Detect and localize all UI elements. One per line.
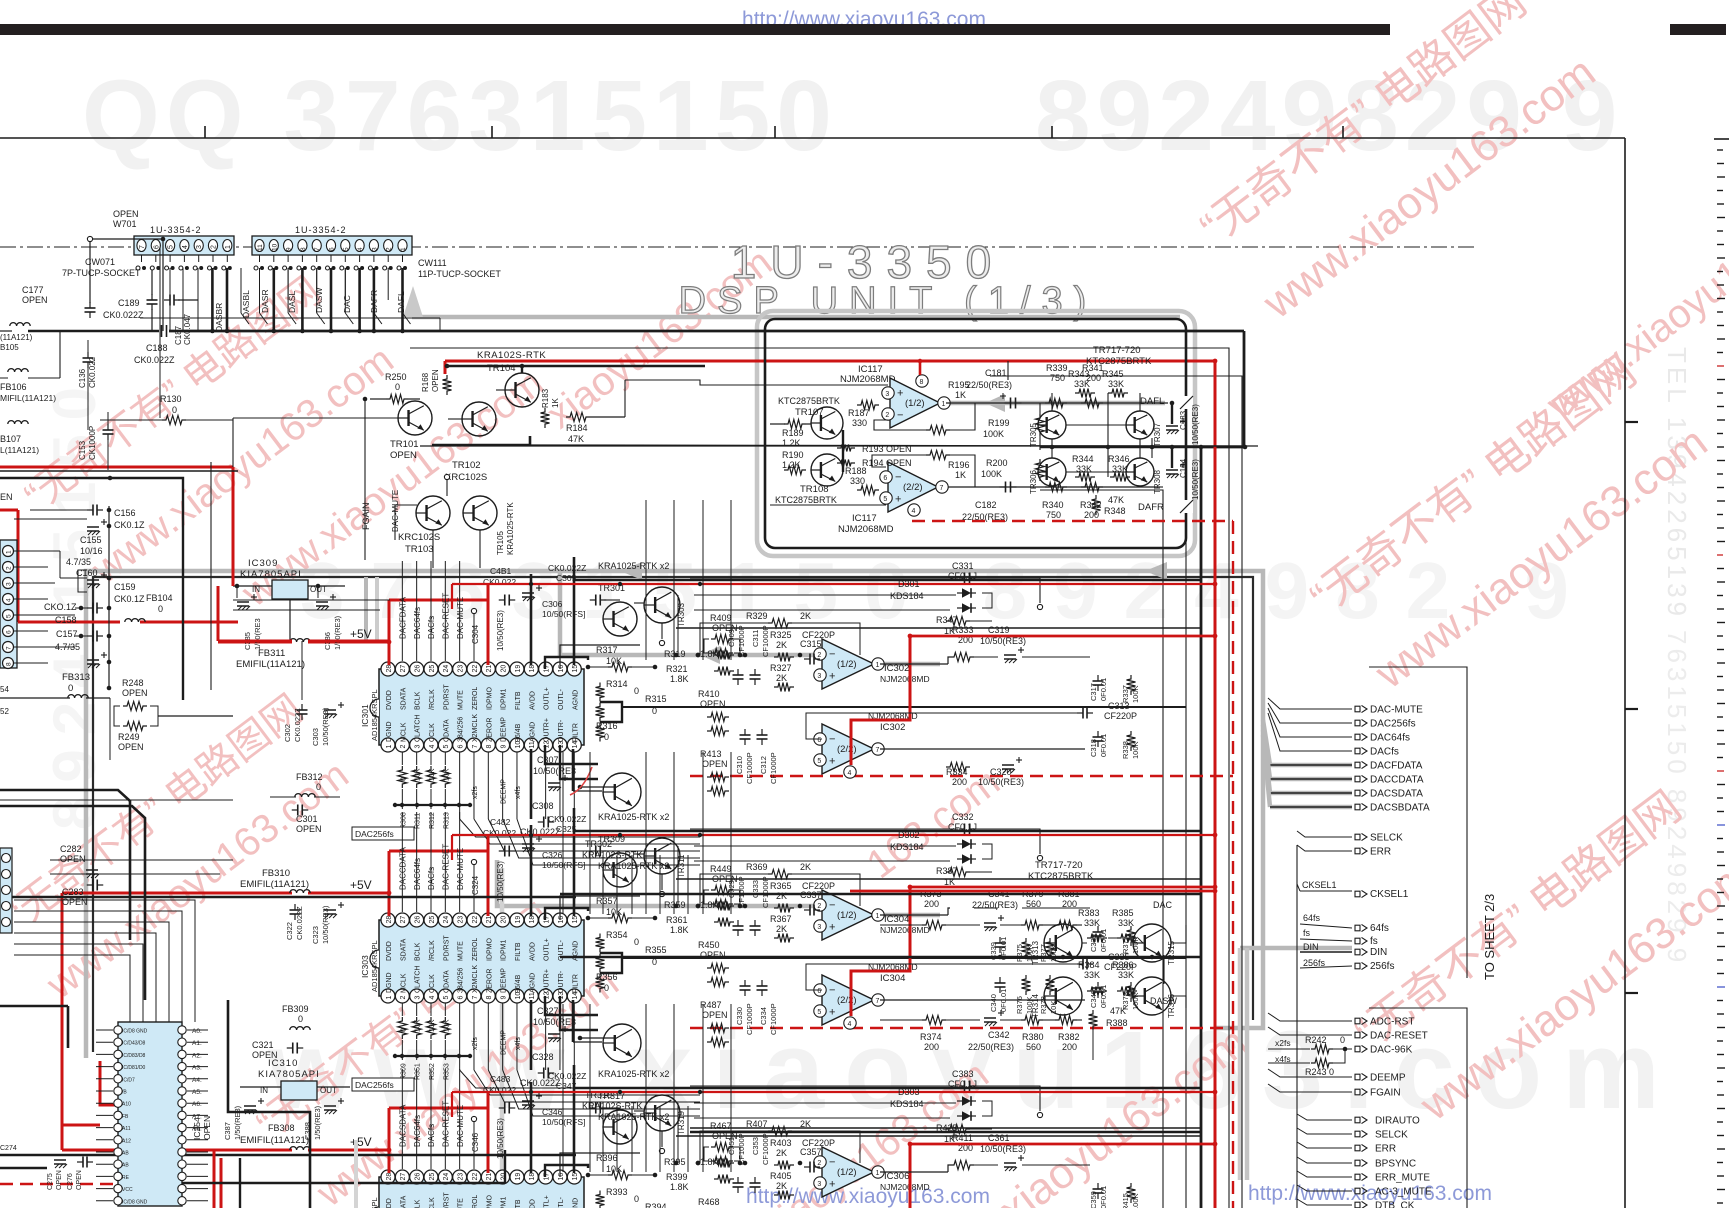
- svg-text:OPEN: OPEN: [296, 824, 322, 834]
- svg-text:7: 7: [314, 247, 321, 251]
- svg-text:FILTR: FILTR: [572, 974, 579, 993]
- svg-text:6: 6: [457, 996, 464, 1000]
- svg-text:CK0.022Z: CK0.022Z: [293, 708, 302, 742]
- svg-text:R344: R344: [1072, 454, 1094, 464]
- svg-text:0: 0: [634, 1194, 639, 1204]
- svg-text:C302: C302: [283, 724, 292, 742]
- red supply pin8: [919, 361, 922, 375]
- svg-text:R354: R354: [606, 930, 628, 940]
- net DTB_CK: [1297, 1199, 1352, 1205]
- svg-text:25: 25: [429, 916, 436, 924]
- feedback loop small IC305: [700, 1131, 768, 1163]
- red wire left s2: [61, 893, 64, 1150]
- svg-text:DEEMP: DEEMP: [501, 717, 508, 742]
- svg-text:33K: 33K: [1118, 970, 1134, 980]
- svg-text:IC309: IC309: [248, 558, 278, 569]
- frame top border: [0, 137, 1625, 139]
- bracket box group1: [1369, 667, 1467, 978]
- svg-text:26: 26: [414, 916, 421, 924]
- gray bus arrow at connector: [403, 286, 423, 317]
- svg-text:DACFDATA: DACFDATA: [1370, 761, 1423, 772]
- svg-text:7: 7: [876, 998, 880, 1005]
- svg-text:16: 16: [558, 916, 565, 924]
- svg-text:CLATCH: CLATCH: [415, 966, 422, 993]
- svg-text:IC/D8 GND: IC/D8 GND: [122, 1199, 148, 1205]
- svg-text:33K: 33K: [1084, 918, 1100, 928]
- svg-text:256fs: 256fs: [1303, 958, 1326, 968]
- svg-text:DAC64fs: DAC64fs: [1370, 733, 1410, 744]
- net DAC-96K: [1355, 1046, 1360, 1052]
- net DACfs: [1268, 713, 1352, 751]
- svg-text:5: 5: [343, 247, 350, 251]
- svg-text:7P-TUCP-SOCKET: 7P-TUCP-SOCKET: [62, 268, 141, 278]
- svg-text:R352: R352: [429, 1063, 436, 1080]
- svg-text:1K: 1K: [955, 390, 966, 400]
- feedback wires IC302: [1060, 656, 1090, 658]
- svg-text:CK0.022Z: CK0.022Z: [134, 355, 175, 365]
- svg-text:DAC64fs: DAC64fs: [413, 1115, 422, 1147]
- svg-text:−: −: [829, 1157, 835, 1169]
- svg-text:3: 3: [371, 247, 378, 251]
- svg-text:20: 20: [500, 916, 507, 924]
- svg-text:−: −: [829, 734, 835, 746]
- right edge tick marks: [1717, 149, 1723, 151]
- svg-text:D303: D303: [898, 1087, 920, 1097]
- svg-text:CCLK: CCLK: [429, 723, 436, 742]
- svg-text:DEEMP: DEEMP: [501, 779, 508, 804]
- capacitor C183: [1166, 425, 1178, 427]
- svg-text:4: 4: [429, 745, 436, 749]
- svg-text:15: 15: [572, 1173, 579, 1181]
- svg-text:1: 1: [876, 662, 880, 669]
- svg-text:C275: C275: [47, 1173, 54, 1190]
- svg-text:ZEROL: ZEROL: [472, 687, 479, 710]
- svg-text:KTC2875BRTK: KTC2875BRTK: [778, 396, 840, 406]
- svg-text:33K: 33K: [1074, 379, 1090, 389]
- svg-text:2: 2: [400, 996, 407, 1000]
- svg-text:R376: R376: [1015, 996, 1024, 1014]
- svg-text:KTC2875BRTK: KTC2875BRTK: [1028, 871, 1094, 882]
- svg-text:9: 9: [500, 745, 507, 749]
- svg-text:CK0.022Z: CK0.022Z: [103, 310, 144, 320]
- svg-text:AGND: AGND: [529, 722, 536, 742]
- svg-text:DIN: DIN: [1370, 947, 1387, 958]
- red supply wires IC305: [62, 1149, 292, 1152]
- svg-text:FILTB: FILTB: [515, 1199, 522, 1208]
- red wires left s1: [217, 586, 220, 641]
- svg-text:MUTE: MUTE: [458, 690, 465, 710]
- svg-text:ERR: ERR: [1375, 1144, 1396, 1155]
- svg-text:R327: R327: [770, 663, 792, 673]
- svg-text:750: 750: [1050, 373, 1065, 383]
- svg-text:330: 330: [850, 476, 865, 486]
- svg-text:1.8K: 1.8K: [670, 674, 689, 684]
- svg-text:DACfs: DACfs: [427, 867, 436, 890]
- net DAC256fs: [1268, 703, 1352, 723]
- svg-text:25: 25: [429, 665, 436, 673]
- feedback wires IC306: [1060, 1164, 1090, 1166]
- svg-text:C319: C319: [988, 625, 1010, 635]
- capacitor C156: [87, 509, 93, 511]
- svg-text:OPEN: OPEN: [113, 209, 139, 219]
- svg-text:R367: R367: [770, 914, 792, 924]
- svg-text:NJM2068MD: NJM2068MD: [880, 674, 930, 684]
- svg-text:R315: R315: [645, 694, 667, 704]
- op-amp IC306 1/2: [822, 1147, 874, 1197]
- svg-text:−: −: [897, 410, 903, 422]
- svg-text:DAC-RESET: DAC-RESET: [442, 844, 451, 890]
- svg-text:100K: 100K: [1131, 1193, 1140, 1208]
- svg-text:C325: C325: [556, 824, 577, 834]
- svg-text:R468: R468: [698, 1197, 720, 1207]
- svg-text:R183: R183: [541, 388, 550, 408]
- svg-text:IC304: IC304: [884, 914, 909, 925]
- svg-text:IC310: IC310: [268, 1058, 298, 1069]
- svg-text:10/50(RE3): 10/50(RE3): [1191, 404, 1200, 445]
- net DACCDATA: [1270, 777, 1352, 782]
- svg-text:AGND: AGND: [572, 690, 579, 710]
- svg-text:21: 21: [486, 916, 493, 924]
- svg-text:2K: 2K: [800, 862, 811, 872]
- svg-text:R383: R383: [1078, 908, 1100, 918]
- svg-text:R333: R333: [952, 625, 974, 635]
- IC117 shield box: [765, 319, 1186, 548]
- svg-text:5: 5: [883, 496, 887, 503]
- svg-text:C155: C155: [80, 535, 102, 545]
- svg-text:OUTR+: OUTR+: [544, 718, 551, 742]
- svg-text:(11A121): (11A121): [0, 333, 33, 342]
- wires ch2 stage: [880, 924, 922, 926]
- transistor TR102: [462, 402, 496, 436]
- svg-text:24: 24: [443, 665, 450, 673]
- svg-text:IC/D7: IC/D7: [122, 1077, 135, 1083]
- svg-text:(1/2): (1/2): [837, 659, 857, 670]
- svg-text:26: 26: [414, 1173, 421, 1181]
- svg-text:33K: 33K: [1118, 918, 1134, 928]
- svg-text:7: 7: [940, 485, 944, 492]
- svg-text:B107: B107: [0, 434, 21, 444]
- svg-text:EN: EN: [0, 492, 13, 502]
- svg-text:4: 4: [848, 1021, 852, 1028]
- svg-text:5: 5: [817, 1009, 821, 1016]
- svg-text:2K: 2K: [800, 611, 811, 621]
- transistor TR305: [1038, 411, 1066, 439]
- transistor TR310: [603, 1024, 641, 1062]
- transistor TR308: [1126, 458, 1154, 486]
- wire mid bus ch2: [560, 956, 1201, 959]
- feedback loop small IC303: [700, 874, 768, 906]
- net DACSDATA: [1270, 791, 1352, 796]
- black supply verticals IC303: [530, 825, 533, 916]
- wire out pins IC301: [545, 745, 598, 764]
- svg-text:DAC-MUTE: DAC-MUTE: [1370, 705, 1423, 716]
- svg-text:DAC256fs: DAC256fs: [1370, 719, 1416, 730]
- svg-text:100K: 100K: [981, 469, 1002, 479]
- svg-text:+: +: [829, 671, 835, 683]
- svg-text:FB309: FB309: [282, 1004, 309, 1014]
- svg-text:OPEN: OPEN: [431, 369, 440, 392]
- svg-text:C312: C312: [759, 756, 768, 774]
- svg-text:1: 1: [942, 401, 946, 408]
- svg-text:64fs: 64fs: [1370, 923, 1389, 934]
- svg-text:18: 18: [529, 1173, 536, 1181]
- svg-text:DASW: DASW: [1150, 996, 1178, 1006]
- svg-text:A3.: A3.: [192, 1065, 202, 1072]
- svg-text:3: 3: [6, 582, 13, 586]
- svg-text:52: 52: [0, 707, 9, 716]
- svg-text:C188: C188: [146, 343, 168, 353]
- svg-text:R361: R361: [666, 915, 688, 925]
- svg-text:C308: C308: [532, 801, 554, 811]
- svg-text:R339: R339: [1046, 363, 1068, 373]
- svg-text:fs: fs: [1303, 928, 1311, 938]
- red dashed boundary s3: [690, 1027, 1233, 1029]
- svg-text:C328: C328: [532, 1052, 554, 1062]
- svg-text:1: 1: [6, 550, 13, 554]
- wires left edge area: [0, 799, 233, 801]
- svg-text:25: 25: [429, 1173, 436, 1181]
- below-block resistors IC303: [401, 1003, 403, 1016]
- svg-text:DAC256fs: DAC256fs: [355, 829, 394, 839]
- svg-text:TR108: TR108: [800, 484, 829, 495]
- label DAC256fs box IC303: [352, 1078, 414, 1091]
- svg-text:CK0.022Z: CK0.022Z: [548, 1071, 586, 1081]
- svg-text:FB106: FB106: [0, 382, 27, 392]
- svg-text:1: 1: [876, 1170, 880, 1177]
- thick corner path B: [228, 1000, 310, 1208]
- opamp1 out wire IC306: [880, 1171, 948, 1173]
- svg-text:CF1000P: CF1000P: [761, 625, 770, 657]
- svg-text:5: 5: [6, 614, 13, 618]
- svg-text:DACfs: DACfs: [427, 616, 436, 639]
- svg-text:TR104: TR104: [487, 363, 516, 374]
- svg-text:EMIFIL(11A121): EMIFIL(11A121): [240, 1135, 309, 1146]
- red dashed boundary s1: [912, 520, 1233, 522]
- svg-text:CKSEL1: CKSEL1: [1302, 880, 1337, 890]
- left long feeds: [233, 599, 390, 601]
- capacitor C159: [87, 607, 93, 609]
- svg-text:KRC102S: KRC102S: [398, 532, 440, 543]
- svg-text:FB: FB: [122, 1114, 129, 1120]
- svg-text:R410: R410: [698, 689, 720, 699]
- svg-text:EMIFIL(11A121): EMIFIL(11A121): [240, 879, 309, 890]
- svg-text:+5V: +5V: [350, 1135, 372, 1149]
- svg-text:AVDD: AVDD: [529, 691, 536, 710]
- svg-text:MUTE: MUTE: [458, 941, 465, 961]
- transistor TR303: [644, 587, 680, 623]
- svg-text:IC302: IC302: [884, 663, 909, 674]
- net AC-3_MUTE: [1297, 1185, 1352, 1191]
- wires TR103 TR105: [432, 530, 434, 568]
- svg-text:OPEN: OPEN: [22, 295, 48, 305]
- svg-text:28: 28: [386, 665, 393, 673]
- svg-text:CK0.022: CK0.022: [483, 828, 516, 838]
- capacitor cluster C155-C160: [108, 506, 110, 690]
- svg-text:IDPM1: IDPM1: [501, 940, 508, 962]
- svg-text:10/50(RE3): 10/50(RE3): [321, 707, 330, 746]
- svg-text:A1.: A1.: [192, 1040, 202, 1047]
- svg-text:8: 8: [486, 745, 493, 749]
- thick verticals below IC301: [530, 749, 533, 819]
- svg-text:SELCK: SELCK: [1375, 1130, 1408, 1141]
- svg-text:X2MCLK: X2MCLK: [472, 714, 479, 742]
- svg-text:FILTB: FILTB: [515, 942, 522, 961]
- svg-text:22: 22: [472, 916, 479, 924]
- svg-text:BCLK: BCLK: [415, 942, 422, 961]
- svg-text:FB308: FB308: [268, 1123, 295, 1133]
- left edge connector mid: [0, 540, 17, 668]
- thin rail x1229: [410, 348, 1229, 1208]
- transistor TR319: [644, 1095, 680, 1131]
- gray bus band B2: [86, 571, 1263, 1058]
- svg-text:+: +: [829, 1179, 835, 1191]
- svg-text:22/50(RE3): 22/50(RE3): [968, 1042, 1014, 1052]
- svg-text:IDPMO: IDPMO: [486, 1195, 493, 1208]
- svg-text:CK0.1Z: CK0.1Z: [114, 520, 145, 530]
- svg-text:C310: C310: [735, 756, 744, 774]
- transistor TR311: [644, 838, 680, 874]
- svg-text:D302: D302: [898, 830, 920, 840]
- net ADC-RST: [1268, 1013, 1352, 1021]
- signal labels above IC301: [401, 561, 403, 661]
- svg-text:FGAIN: FGAIN: [361, 502, 371, 530]
- svg-text:1: 1: [400, 247, 407, 251]
- svg-text:R365: R365: [770, 881, 792, 891]
- svg-text:TR102: TR102: [452, 460, 481, 471]
- registration bar top right: [1670, 24, 1726, 35]
- IC IC301 AD1854KRSPL: [379, 669, 584, 745]
- svg-text:C276: C276: [67, 1173, 74, 1190]
- svg-text:22: 22: [472, 1173, 479, 1181]
- net SELCK: [1297, 1128, 1352, 1134]
- svg-text:IC117: IC117: [852, 513, 877, 524]
- transistor TR314: [1044, 977, 1082, 1015]
- red main rail: [445, 361, 1215, 1208]
- svg-text:CKO.1Z: CKO.1Z: [44, 602, 77, 612]
- svg-text:10K: 10K: [415, 1019, 422, 1032]
- svg-text:2K: 2K: [776, 640, 787, 650]
- gray bus band B2 black companion: [93, 577, 1253, 1052]
- svg-text:1K: 1K: [551, 398, 560, 408]
- svg-text:DAC-MUTE: DAC-MUTE: [456, 848, 465, 890]
- svg-text:R405: R405: [770, 1171, 792, 1181]
- svg-text:(1/2): (1/2): [837, 910, 857, 921]
- svg-text:IC/D81/D0: IC/D81/D0: [122, 1065, 146, 1071]
- svg-text:AVDD: AVDD: [529, 1199, 536, 1208]
- svg-text:IDPMO: IDPMO: [486, 687, 493, 711]
- wire maze bottom left: [14, 900, 195, 1022]
- svg-text:(2/2): (2/2): [837, 995, 857, 1006]
- svg-text:DAFL: DAFL: [396, 291, 406, 313]
- svg-text:R243 0: R243 0: [1305, 1067, 1334, 1077]
- svg-text:C482: C482: [490, 817, 511, 827]
- svg-text:15: 15: [572, 665, 579, 673]
- svg-text:R130: R130: [160, 394, 182, 404]
- svg-text:R311: R311: [415, 813, 422, 829]
- red wire opamp supply IC306: [851, 1144, 910, 1208]
- svg-text:0: 0: [400, 1028, 407, 1032]
- svg-text:5: 5: [443, 996, 450, 1000]
- svg-text:2: 2: [885, 412, 889, 419]
- svg-text:MUTE: MUTE: [458, 1198, 465, 1208]
- svg-text:R346: R346: [1108, 454, 1130, 464]
- gray bus s3 vertical: [354, 1140, 358, 1208]
- svg-text:C303: C303: [311, 728, 320, 746]
- svg-text:AD1854KRSPL: AD1854KRSPL: [370, 689, 379, 741]
- svg-text:R393: R393: [606, 1187, 628, 1197]
- svg-text:20: 20: [500, 665, 507, 673]
- svg-text:FB310: FB310: [262, 868, 290, 879]
- svg-text:R385: R385: [1112, 908, 1134, 918]
- net ERR: [1297, 1142, 1352, 1148]
- gray bus group2 vertical: [1245, 948, 1250, 1180]
- svg-text:R321: R321: [666, 664, 688, 674]
- svg-text:IDPMO: IDPMO: [486, 938, 493, 962]
- ferrite bead FB107: [8, 421, 28, 424]
- net BPSYNC: [1297, 1157, 1352, 1163]
- svg-text:0: 0: [604, 732, 609, 742]
- svg-text:C306: C306: [542, 599, 563, 609]
- svg-text:6: 6: [457, 745, 464, 749]
- IC254 block: [118, 1022, 182, 1206]
- svg-text:KDS184: KDS184: [890, 842, 924, 852]
- feedback wires IC304: [1060, 907, 1090, 909]
- svg-text:D301: D301: [898, 579, 920, 589]
- svg-text:DASBR: DASBR: [214, 303, 224, 332]
- svg-text:TO SHEET 2/3: TO SHEET 2/3: [1482, 894, 1497, 980]
- capacitor C387: [244, 1105, 256, 1107]
- svg-text:CF1000P: CF1000P: [761, 876, 770, 908]
- svg-text:24: 24: [443, 916, 450, 924]
- red verticals bottom to edge: [213, 1150, 216, 1208]
- svg-text:AD1854KRSPL: AD1854KRSPL: [370, 940, 379, 992]
- resistor R316: [596, 723, 605, 742]
- svg-text:DVDD: DVDD: [386, 690, 393, 710]
- svg-text:OPEN: OPEN: [702, 759, 728, 769]
- svg-text:560: 560: [1026, 1042, 1041, 1052]
- svg-text:C326: C326: [542, 850, 563, 860]
- feedback loop small IC301: [700, 623, 768, 655]
- svg-text:+: +: [829, 922, 835, 934]
- svg-text:R411: R411: [952, 1133, 973, 1143]
- svg-text:R380: R380: [1022, 1032, 1044, 1042]
- long horizontals lower: [690, 1127, 1201, 1129]
- svg-text:TR307: TR307: [1153, 422, 1162, 447]
- svg-text:C156: C156: [114, 508, 136, 518]
- svg-text:DTB_CK: DTB_CK: [1375, 1201, 1415, 1208]
- svg-text:DACfs: DACfs: [1370, 747, 1399, 758]
- svg-text:10K: 10K: [429, 768, 436, 781]
- svg-text:DVDD: DVDD: [386, 941, 393, 961]
- svg-text:1U-3354-2: 1U-3354-2: [295, 225, 347, 235]
- svg-text:10/50(RE3): 10/50(RE3): [496, 610, 505, 651]
- svg-text:KRC102S: KRC102S: [445, 472, 487, 483]
- svg-text:DAC64fs: DAC64fs: [413, 607, 422, 639]
- svg-text:7: 7: [472, 745, 479, 749]
- svg-text:A0.: A0.: [192, 1028, 202, 1035]
- svg-text:DAC-96K: DAC-96K: [1370, 1045, 1413, 1056]
- gray bus DIN: [1240, 946, 1352, 951]
- svg-text:R348: R348: [1104, 506, 1126, 516]
- svg-text:C307: C307: [537, 755, 559, 765]
- svg-text:C330: C330: [735, 1007, 744, 1025]
- svg-text:C311: C311: [751, 630, 760, 647]
- svg-text:W701: W701: [113, 219, 137, 229]
- svg-text:+: +: [829, 1007, 835, 1019]
- red wire stub down: [444, 361, 447, 374]
- svg-text:TR306: TR306: [1029, 469, 1038, 494]
- svg-text:OPEN: OPEN: [118, 742, 144, 752]
